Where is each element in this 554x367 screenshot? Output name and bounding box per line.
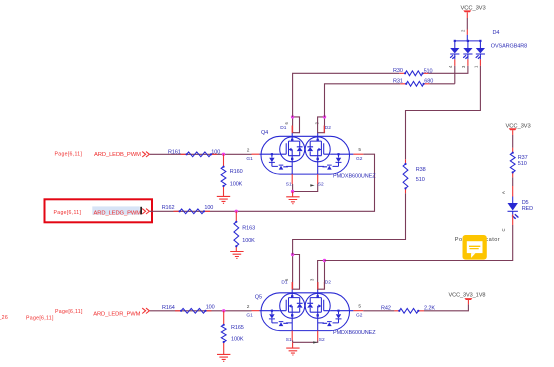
ground below R163 (230, 252, 243, 259)
svg-text:PMDXB600UNEZ: PMDXB600UNEZ (333, 330, 376, 336)
power VCC_3V3 top (461, 5, 486, 35)
emission arrows LED1 (450, 55, 455, 59)
svg-text:3: 3 (315, 122, 320, 125)
junction Q4 D2 (323, 115, 326, 118)
resistor R38 (403, 164, 408, 188)
svg-text:ARD_LEDR_PWM: ARD_LEDR_PWM (93, 312, 140, 318)
wire loop at Q5 D1 pin (293, 255, 300, 290)
resistor R162 leads (174, 210, 211, 212)
resistor R163 (234, 222, 239, 246)
node ARD_LEDB_PWM row (55, 149, 252, 203)
svg-text:Page[6,11]: Page[6,11] (26, 315, 54, 321)
svg-text:Page[6,11]: Page[6,11] (55, 152, 83, 158)
svg-text:510: 510 (518, 161, 527, 167)
svg-text:100K: 100K (231, 337, 244, 343)
resistor R165 leads (223, 311, 225, 354)
resistor R42 leads (394, 310, 424, 312)
junction Q4 D1 (291, 115, 294, 118)
svg-text:D2: D2 (325, 280, 331, 286)
wire loop at Q4 D1 pin (293, 117, 300, 133)
resistor R31 (406, 81, 424, 86)
svg-text:R160: R160 (230, 169, 243, 175)
junction Q4 S (291, 190, 294, 193)
svg-text:PMDXB600UNEZ: PMDXB600UNEZ (333, 173, 376, 179)
svg-text:3: 3 (310, 278, 315, 281)
resistor R30 (405, 71, 423, 76)
junction row3 (222, 309, 225, 312)
resistor R161 leads (181, 153, 218, 155)
wire R30 to Q4 D1 (293, 73, 400, 117)
dangling marker arrow Q5 S2 (313, 341, 317, 343)
junction Q5 D1 (291, 253, 294, 256)
off-page connector chevron row3 (142, 308, 149, 313)
svg-text:_26: _26 (0, 315, 8, 321)
wire Q5 S1 to ground (292, 341, 294, 343)
resistor R164 leads (175, 310, 212, 312)
text cursor bar (140, 207, 142, 215)
wire VCC to R37 (512, 130, 514, 135)
svg-text:S2: S2 (318, 181, 324, 187)
emission arrows D5 (512, 214, 518, 219)
svg-text:510: 510 (416, 177, 425, 183)
svg-text:Page[6,11]: Page[6,11] (55, 309, 83, 315)
svg-text:R164: R164 (162, 305, 175, 311)
LED element 3 of D4 (476, 48, 485, 54)
off-page connector chevron row2 (142, 209, 149, 214)
svg-text:2: 2 (461, 29, 466, 32)
ground below R165 (217, 354, 230, 361)
highlight box around ARD_LEDG_PWM (45, 199, 153, 222)
svg-text:G1: G1 (246, 156, 253, 162)
transistor Q5 dual MOSFET (246, 253, 376, 355)
wire R37 to D5 (512, 177, 514, 186)
svg-text:R163: R163 (242, 225, 255, 231)
wire D4 pin4 to R31 (429, 66, 455, 84)
svg-text:R165: R165 (231, 325, 244, 331)
resistor R164 (181, 308, 205, 313)
pin lead highlights Q4 D1 D2 (292, 126, 324, 133)
svg-text:R38: R38 (416, 167, 426, 173)
LED D4 OVSARGB4R8 (448, 30, 527, 68)
resistor R160 (221, 167, 226, 186)
resistor R38 leads (405, 159, 407, 193)
svg-text:S1: S1 (286, 337, 292, 343)
svg-text:100: 100 (206, 305, 215, 311)
wire VCC to D4 pin 2 (466, 12, 468, 18)
junction Q5 D2 (323, 259, 326, 262)
svg-text:OVSARGB4R8: OVSARGB4R8 (491, 44, 527, 50)
svg-text:C: C (501, 228, 506, 231)
svg-text:5: 5 (358, 147, 361, 153)
ground stub Q4 (292, 192, 294, 197)
svg-text:R161: R161 (168, 149, 181, 155)
svg-text:ARD_LEDB_PWM: ARD_LEDB_PWM (94, 152, 141, 158)
wire R42 to VCC_3V3_1V8 (424, 304, 468, 311)
svg-text:100: 100 (204, 205, 213, 211)
resistor R31 leads (400, 83, 429, 85)
svg-text:A: A (501, 191, 506, 194)
svg-text:D4: D4 (493, 30, 500, 36)
wire D4 pin3 to R30 (428, 66, 468, 73)
resistor R163 leads (235, 211, 237, 251)
ground below R160 (217, 196, 230, 203)
svg-text:5: 5 (358, 304, 361, 310)
wire row2 to Q4 G2 (150, 154, 375, 211)
svg-text:4: 4 (448, 65, 453, 68)
svg-text:100: 100 (211, 150, 220, 156)
svg-text:ARD_LEDG_PWM: ARD_LEDG_PWM (94, 210, 142, 216)
svg-text:510: 510 (424, 68, 433, 74)
emission arrows LED3 (476, 55, 481, 59)
power VCC_3V3_1V8 (449, 293, 486, 305)
emission arrows LED2 (463, 55, 468, 59)
transistor Q4 dual MOSFET (246, 115, 376, 203)
wire D4 pin1 to R38 (406, 66, 481, 159)
pin lead highlights Q5 D1 D2 (292, 282, 318, 289)
selection highlight behind net name (92, 206, 140, 214)
svg-text:VCC_3V3_1V8: VCC_3V3_1V8 (449, 293, 486, 299)
resistor R160 leads (223, 154, 225, 196)
svg-text:G2: G2 (356, 313, 363, 319)
svg-text:RED: RED (522, 206, 533, 212)
svg-text:G2: G2 (356, 156, 363, 162)
svg-text:2: 2 (247, 147, 250, 153)
LED D5 body (508, 203, 518, 211)
power VCC_3V3 right (506, 123, 531, 148)
resistor R37 leads (512, 148, 514, 178)
junction row2 (235, 210, 238, 213)
anode bus D4 (455, 35, 481, 48)
wire loop at Q5 D2 pin (318, 261, 325, 290)
cathode stubs D4 (455, 55, 481, 60)
LED element 2 of D4 (463, 48, 472, 54)
svg-text:S2: S2 (319, 337, 325, 343)
svg-text:3: 3 (461, 65, 466, 68)
node ARD_LEDR_PWM row (0, 305, 252, 362)
junction row1 (222, 153, 225, 156)
LED element 1 of D4 (450, 48, 459, 54)
wire Q4 S1 to ground (292, 184, 294, 192)
wire Q4 S2 to S1 (293, 184, 318, 192)
wire R38 to Q5 D1 (293, 193, 406, 254)
svg-text:100K: 100K (230, 181, 243, 187)
resistor R165 (221, 325, 226, 342)
wire R31 to Q4 D2 (325, 84, 401, 117)
svg-text:R162: R162 (162, 205, 175, 211)
svg-text:Page[6,11]: Page[6,11] (54, 210, 82, 216)
resistor R37 (510, 153, 515, 173)
ground Q5 sources (286, 348, 299, 355)
wire Q5 G2 to R42 (363, 310, 394, 312)
svg-text:1: 1 (474, 65, 479, 68)
anode pin A of D5 (512, 186, 514, 197)
comment icon (463, 235, 487, 260)
resistor R42 (399, 308, 418, 313)
svg-text:S1: S1 (286, 181, 292, 187)
node ARD_LEDG_PWM row (45, 154, 375, 258)
svg-text:6: 6 (284, 278, 289, 281)
svg-text:R42: R42 (381, 306, 391, 312)
svg-text:D1: D1 (280, 125, 286, 131)
cathode pin C of D5 (512, 211, 514, 214)
dangling marker arrow Q4 S2 (310, 184, 314, 186)
LED D5 RED (501, 186, 533, 232)
svg-text:100K: 100K (242, 238, 255, 244)
svg-text:D2: D2 (325, 125, 331, 131)
off-page connector chevron row1 (142, 152, 149, 157)
ground Q4 sources (286, 197, 299, 204)
svg-text:G1: G1 (246, 312, 253, 318)
resistor R30 leads (399, 72, 428, 74)
wire D5 cathode to Q5 D2 (325, 225, 513, 261)
wire Q5 S2 to S1 (293, 341, 318, 343)
svg-text:Q5: Q5 (255, 294, 262, 300)
svg-text:2: 2 (247, 304, 250, 310)
ground stub Q5 (292, 342, 294, 348)
resistor R162 (180, 209, 204, 214)
svg-text:680: 680 (424, 79, 433, 85)
resistor R161 (187, 152, 211, 157)
svg-text:Q4: Q4 (261, 130, 268, 136)
svg-text:6: 6 (284, 122, 289, 125)
wire row1 (150, 153, 252, 155)
wire row3 (150, 310, 252, 312)
wire loop at Q4 D2 pin (318, 117, 325, 133)
